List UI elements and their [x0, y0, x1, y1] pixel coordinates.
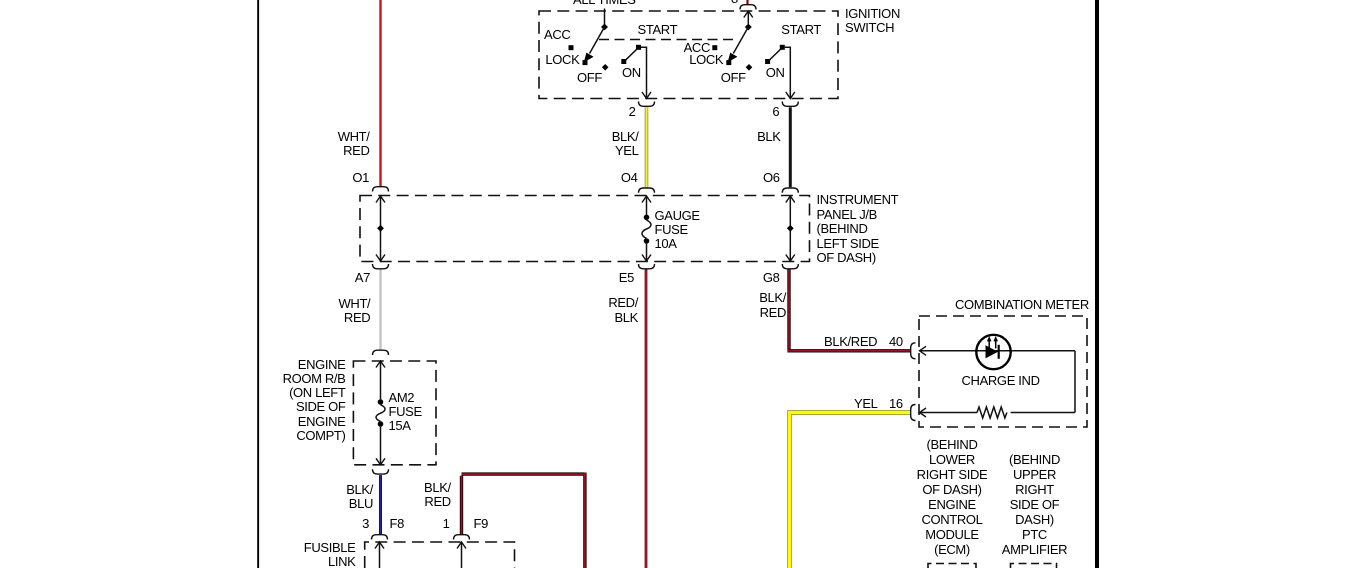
switch 1 output line to terminal 2 with down arrow: [641, 47, 651, 98]
wire BLK/RED G8 down then right to combination meter: [787, 270, 910, 351]
instrument panel J/B box (dashed): [360, 196, 810, 262]
label connector F8: [390, 517, 404, 532]
label IGNITION SWITCH: [845, 7, 900, 36]
label connector O6: [763, 171, 780, 186]
connector O1 cap: [373, 187, 389, 192]
label wire WHT/RED lower: [339, 297, 371, 326]
page border right: [1095, 0, 1099, 568]
terminal 2 connector cap: [639, 102, 655, 107]
label connector O4: [621, 171, 638, 186]
label wire BLK/RED pin 40: [824, 335, 877, 350]
connector E5 cap: [639, 264, 655, 269]
connector 8 cap (ignition switch top): [740, 5, 756, 10]
switch 1 LOCK contact: [583, 60, 588, 65]
wire (red) from terminal 8 going off top: [746, 0, 748, 5]
label connector A7: [355, 271, 370, 286]
label terminal 2: [629, 105, 636, 120]
mechanical link dashed line between switch wipers: [599, 39, 737, 41]
label connector F9: [474, 517, 488, 532]
label connector E5: [619, 271, 634, 286]
switch 2 pivot diamond: [745, 24, 752, 31]
switch 1 common line: [604, 24, 606, 27]
engine room R/B cap (bottom): [373, 469, 389, 474]
switch 1 ON contact and link: [621, 45, 641, 64]
label terminal 6: [772, 105, 779, 120]
wire BLK/BLU to fusible link F8: [379, 475, 382, 534]
label wire WHT/RED top: [338, 130, 370, 159]
wire ALL TIMES feed to ignition switch common: [604, 9, 606, 25]
connector O4 cap: [639, 188, 655, 193]
combination meter box (dashed): [919, 316, 1087, 427]
label wire RED/BLK: [608, 296, 638, 325]
switch 2 OFF contact diamond: [746, 64, 753, 71]
label wire BLK/YEL: [612, 130, 639, 159]
wire YEL from combination meter left then down off bottom: [790, 413, 911, 568]
label wire BLK: [757, 130, 781, 145]
switch 2 ACC contact: [712, 45, 717, 50]
combination meter pin 16 arrow: [920, 408, 927, 417]
combination meter pin 40 arrow: [920, 346, 927, 355]
label INSTRUMENT PANEL J/B: [817, 193, 899, 266]
label pin 3: [362, 517, 369, 532]
switch 2 position labels: [684, 41, 710, 56]
label pin 1: [443, 517, 450, 532]
PTC amplifier connector box (bottom, cut): [1011, 564, 1057, 568]
label PTC AMPLIFIER: [970, 453, 1100, 558]
charge indicator lamp wire (top): [920, 350, 1076, 352]
label CHARGE IND: [962, 374, 1040, 389]
label wire YEL pin 16: [854, 397, 878, 412]
meter internal right link wire: [1074, 351, 1076, 413]
wire WHT/RED (red) from top into O1: [379, 0, 381, 186]
switch 1 pivot diamond: [601, 24, 608, 31]
fusible link box (dashed, cut at bottom): [365, 542, 515, 568]
combination meter connector cap (pin 16): [911, 405, 916, 421]
label fuse AM2 15A: [389, 391, 422, 433]
resistor R1 (charge ind) with wire: [920, 407, 1076, 418]
label pin 8: [731, 0, 738, 7]
connector A7 cap: [373, 264, 389, 269]
label ENGINE CONTROL MODULE (ECM): [887, 438, 1017, 558]
ignition switch box (dashed): [539, 11, 838, 99]
wire BLK/RED from F9 up and right then down off bottom: [462, 473, 585, 568]
label GAUGE FUSE 10A: [655, 209, 700, 252]
wire RED/BLK E5 down off bottom: [645, 270, 648, 568]
connector F8 cap: [372, 535, 388, 540]
switch 1 wiper arm with arrowhead (to LOCK): [584, 27, 605, 62]
connector G8 cap: [782, 264, 798, 269]
engine room R/B cap (top): [373, 350, 389, 355]
ECM connector box (bottom, cut): [928, 564, 976, 568]
wire WHT/RED (grey) A7 to engine room R/B: [379, 270, 381, 350]
terminal 6 connector cap: [782, 102, 798, 107]
J/B column O1-A7: line, arrows, junction diamond: [376, 196, 385, 261]
switch 2 ON contact and link: [765, 45, 785, 64]
switch 2 common line with up arrow to connector 8: [744, 11, 753, 27]
label COMBINATION METER: [955, 298, 1089, 313]
fusible link F8 arrow and wire: [375, 542, 384, 568]
fuse AM2 15A: [376, 361, 385, 465]
wire BLK/YEL terminal 2 to O4: [645, 107, 649, 187]
combination meter connector cap (pin 40): [911, 343, 916, 359]
gauge fuse 10A (J/B column O4-E5): [642, 196, 651, 261]
label ENGINE ROOM R/B: [283, 358, 346, 444]
LED charge indicator U1: [976, 335, 1010, 369]
page border left: [257, 0, 259, 568]
label ALL TIMES: [573, 0, 636, 8]
switch 1 ACC contact: [569, 45, 574, 50]
wire BLK terminal 6 to O6: [789, 107, 792, 187]
label wire BLK/RED at F9: [424, 481, 451, 510]
label connector O1: [352, 171, 369, 186]
switch 1 OFF contact diamond: [602, 64, 609, 71]
fusible link F9 arrow and wire: [457, 542, 466, 568]
connector O6 cap: [782, 188, 798, 193]
switch 2 LOCK contact: [726, 60, 731, 65]
label connector G8: [763, 271, 780, 286]
connector F9 cap: [454, 535, 470, 540]
label wire BLK/BLU: [346, 483, 373, 512]
J/B column O6-G8: line, arrows, junction diamond: [786, 196, 795, 261]
label wire BLK/RED at G8: [759, 290, 786, 322]
switch 1 position labels: [544, 28, 570, 43]
switch 2 wiper arm with arrowhead (to LOCK): [728, 27, 749, 62]
engine room R/B box (dashed): [353, 361, 436, 465]
switch 2 output line to terminal 6 with down arrow: [785, 47, 795, 98]
label FUSIBLE LINK: [304, 541, 356, 568]
